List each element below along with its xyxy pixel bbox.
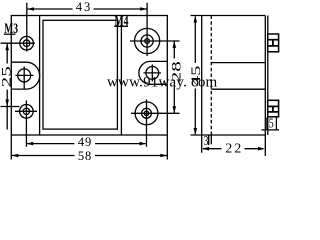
dim 43 line left segment [27,8,73,10]
svg-text:M4: M4 [115,13,129,29]
svg-text:3: 3 [204,133,209,148]
side view right edge outer, extended down for 22-dim [264,16,266,157]
arrow 22 left [202,147,209,151]
top-right hole crosshair horizontal / 28-dim top extension [130,40,180,42]
dim 5 bottom line [262,129,280,131]
lower terminal block [268,100,279,117]
dim 28 line lower segment [173,85,175,114]
mounting hole M4 top-right middle circle [141,35,153,47]
side view right edge inner plate [267,16,269,136]
front view body outline [11,16,167,136]
dashed line extension below body [210,135,212,144]
front view left column divider line [39,16,41,136]
side view top edge with 45-dim extension [191,15,266,17]
front view inner raised square [43,20,117,129]
svg-text:43: 43 [76,0,90,14]
mounting hole M3 top-left inner circle [23,40,30,47]
mounting hole bottom-left outer circle [20,105,34,119]
dim 22 line right segment [245,148,264,150]
top-left hole crosshair horizontal [1,42,36,44]
upper terminal internal line 1 [268,39,279,41]
svg-text:www.91way. com: www.91way. com [107,75,218,91]
middle-left terminal hole [18,69,31,82]
svg-text:5: 5 [269,116,274,131]
dim 5 left extension [266,118,268,131]
front view right column divider line [120,16,122,136]
arrow 58 right [160,154,167,158]
side view hidden edge (dashed) [210,16,212,136]
arrow 45 top [194,16,198,23]
lower terminal internal line 1 [268,105,279,107]
mounting hole bottom-right center circle [144,111,148,115]
middle-right terminal hole [146,67,159,80]
mounting hole bottom-right inner circle [142,108,152,118]
middle-left hole crosshair vertical [23,67,25,90]
bottom-right hole crosshair vertical / 49-dim right extension [146,100,148,147]
dim 25 line upper segment [6,43,8,63]
dim 3 right boundary tick [208,135,210,145]
dim 49 line right segment [95,143,147,145]
dim 22 line left segment [203,148,222,150]
top-left hole crosshair vertical / 43-dim left extension [26,3,28,52]
arrow 49 left [26,142,33,146]
top-right hole crosshair vertical / 43-dim right extension [146,3,148,56]
M4 label underline [114,25,128,27]
arrow 28 top [173,41,177,48]
mounting hole M4 top-right outer circle [135,28,160,53]
dim 5 right extension [275,118,277,131]
dim 49 line left segment [26,143,74,145]
side view left edge (baseplate) extended down [201,16,203,153]
side view internal split line upper [211,62,265,64]
dim 58 right extension (body right edge extended) [166,135,168,160]
upper terminal block [268,34,279,52]
side view bottom edge with 45-dim extension [191,134,266,136]
dim 25 bottom extension line [1,106,20,108]
bottom-left hole crosshair horizontal [15,110,37,112]
dim 58 line right segment [95,155,167,157]
mounting hole bottom-left inner circle [23,108,29,114]
arrow 49 right [140,142,147,146]
arrow 22 right [258,147,265,151]
middle-left terminal boss (stadium) [11,62,39,89]
mounting hole bottom-right outer circle [135,102,158,125]
dim 25 line lower segment [6,90,8,130]
svg-text:58: 58 [78,149,91,163]
dim 28 line upper segment [173,41,175,59]
mounting hole M3 top-left outer circle [20,36,34,50]
dim 45 line upper segment [194,17,196,64]
dim 45 line lower segment [194,89,196,135]
arrow 45 bottom [194,128,198,135]
svg-text:49: 49 [78,135,91,149]
dim 58 line left segment [11,155,74,157]
middle-left hole crosshair horizontal [16,74,34,76]
M3 label underline [4,33,16,35]
upper terminal screw slot [272,40,274,46]
svg-text:25: 25 [0,66,13,87]
side view internal split line lower [211,88,265,90]
arrow 25 bottom [5,100,9,107]
mounting hole M4 top-right inner circle [145,39,150,44]
dim 58 left extension (body left edge extended) [10,135,12,160]
middle-right terminal boss (stadium) [139,61,167,84]
lower terminal internal line 2 [268,111,279,113]
svg-text:M3: M3 [4,21,18,37]
middle-right hole crosshair horizontal [144,72,162,74]
upper terminal internal line 2 [268,45,279,47]
arrow 25 top [5,43,9,50]
arrow 58 left [12,154,19,158]
dim 43 line right segment [94,8,148,10]
lower terminal screw slot [272,106,274,112]
arrow 43 right [140,7,147,11]
bottom-right hole crosshair horizontal / 28-dim bottom extension [131,112,180,114]
bottom-left hole crosshair vertical / 49-dim left extension [25,101,27,147]
middle-right hole crosshair vertical [151,65,153,82]
arrow 28 bottom [173,106,177,113]
arrow 43 left [27,7,34,11]
